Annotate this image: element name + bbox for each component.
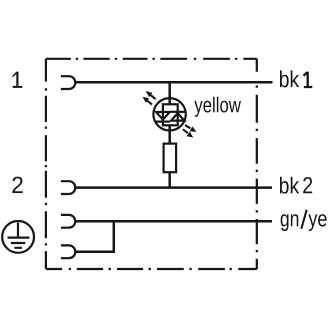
LED right diode (conducts up) (171, 113, 184, 120)
resistor (164, 144, 177, 173)
pin 2 contact (61, 181, 75, 194)
housing outline right (dash-dot) (256, 59, 258, 269)
LED circle (153, 98, 185, 130)
housing outline bottom (dash-dot) (46, 268, 257, 270)
earth contact lower (61, 245, 75, 258)
LED light arrow upper-left 1 (150, 95, 155, 99)
digit 2 of bk 2 (303, 177, 312, 193)
LED inner loop rectangle (163, 104, 178, 125)
label yellow (194, 97, 241, 117)
LED left diode (conducts down) (156, 112, 170, 120)
wire LED branch top (168, 82, 171, 105)
housing outline left (dash-dot) (45, 59, 47, 269)
label bk (row 1) (280, 70, 299, 87)
LED left diode cathode bar (156, 120, 170, 122)
wire LED to resistor (168, 125, 171, 145)
wire pin2 to bk2 (75, 186, 272, 189)
LED light arrow lower-right 1 (185, 125, 190, 128)
wire earth lower jumper (75, 220, 114, 252)
pin number 2 (12, 177, 22, 193)
protective earth bars (8, 223, 30, 248)
protective earth circle (2, 221, 34, 253)
LED light arrow upper-left 2 (147, 100, 152, 104)
pin number 1 (13, 72, 17, 76)
wire resistor to pin2 (168, 172, 171, 188)
digit 1 of bk 1 (304, 72, 313, 87)
wire earth upper to gn/ye (75, 220, 272, 223)
LED right diode anode bar (170, 111, 184, 113)
pin 1 contact (61, 76, 75, 89)
wire pin1 to bk1 (75, 81, 272, 84)
label gn/ye (281, 214, 299, 231)
earth contact upper (61, 215, 75, 228)
label bk (row 2) (280, 177, 299, 194)
LED light arrow lower-right 2 (183, 129, 188, 133)
housing outline top (dash-dot) (46, 58, 257, 60)
